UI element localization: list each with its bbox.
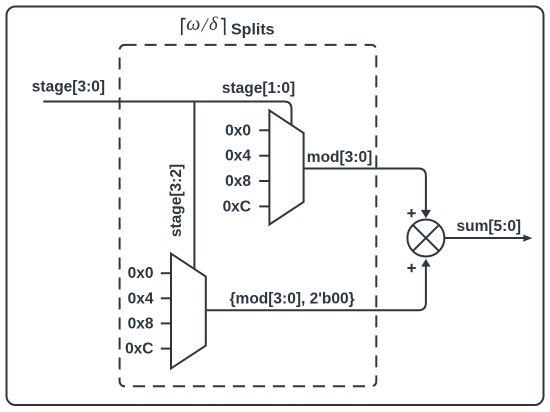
mux U2 input tick 0x0 (161, 272, 171, 274)
plus sign bottom input (407, 264, 415, 272)
svg-text:0x8: 0x8 (225, 173, 251, 190)
svg-text:δ: δ (209, 15, 218, 35)
title ceiling bracket left (182, 19, 186, 35)
svg-text:sum[5:0]: sum[5:0] (457, 218, 522, 235)
dashed Splits container box (120, 45, 377, 386)
mux U1 input tick 0x8 (259, 180, 269, 182)
svg-text:0x0: 0x0 (128, 265, 154, 282)
mux U1 input tick 0xC (259, 205, 269, 207)
mux U2 input tick 0x8 (161, 322, 171, 324)
wire {mod[3:0],2'b00} from lower mux to adder bottom (206, 266, 426, 311)
plus sign top input (407, 209, 415, 217)
mux U1 input tick 0x4 (259, 155, 269, 157)
svg-text:stage[3:0]: stage[3:0] (32, 79, 105, 96)
wire stage[3:0] main horizontal run turning down into upper mux select (43, 102, 291, 127)
arrowhead into adder top (421, 210, 431, 218)
mux U1 input tick 0x0 (259, 129, 269, 131)
wire stage[3:2] select vertical from junction down to lower mux (193, 102, 195, 270)
svg-text:stage[1:0]: stage[1:0] (222, 80, 295, 97)
svg-text:0x8: 0x8 (128, 315, 154, 332)
mux U1 (upper) trapezoid body (269, 110, 303, 224)
svg-text:0xC: 0xC (223, 198, 251, 215)
svg-text:mod[3:0]: mod[3:0] (307, 149, 372, 166)
wire mod[3:0] from upper mux to adder top (304, 169, 426, 211)
arrowhead sum output (523, 235, 532, 242)
mux U2 (lower) trapezoid body (171, 254, 206, 369)
mux U2 input tick 0xC (161, 348, 171, 350)
wire sum[5:0] output from adder (444, 237, 524, 239)
svg-text:0x4: 0x4 (128, 290, 154, 307)
arrowhead into adder bottom (421, 259, 430, 267)
mux U2 input tick 0x4 (161, 297, 171, 299)
adder circle (407, 220, 444, 257)
adder cross line 1 (413, 225, 439, 251)
svg-text:0xC: 0xC (125, 341, 153, 358)
svg-text:0x4: 0x4 (225, 148, 251, 165)
svg-text:Splits: Splits (231, 22, 275, 39)
title ceiling bracket right (221, 19, 225, 35)
adder cross line 2 (413, 225, 439, 251)
svg-text:0x0: 0x0 (225, 122, 251, 139)
svg-text:ω: ω (186, 13, 200, 35)
svg-text:{mod[3:0], 2'b00}: {mod[3:0], 2'b00} (230, 291, 355, 308)
svg-text:stage[3:2]: stage[3:2] (168, 164, 185, 237)
